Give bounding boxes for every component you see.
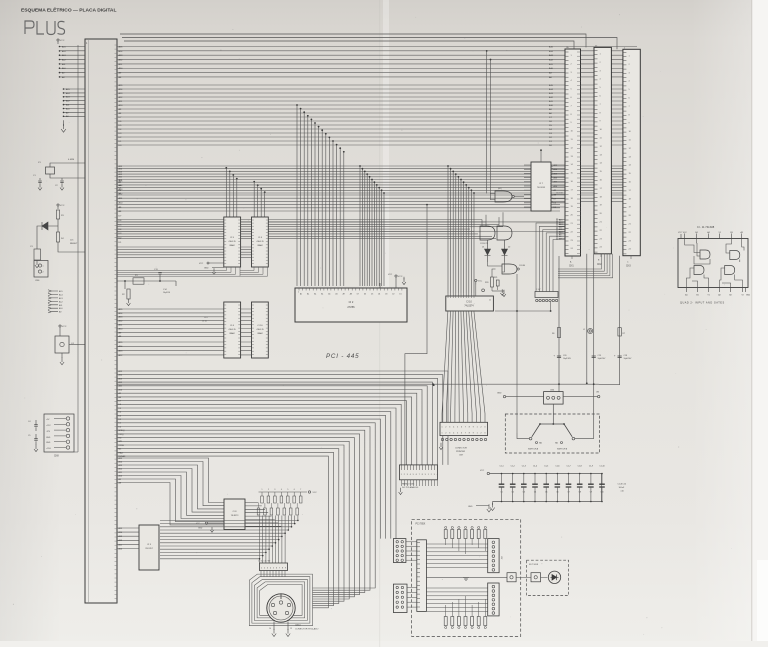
svg-text:4: 4 [453,426,454,428]
svg-text:74LS157: 74LS157 [145,548,153,550]
CN5 bottom pin stubs [402,480,438,486]
wire RAM2 lower lines (4) [117,342,224,355]
svg-text:CI - 11 74LS08: CI - 11 74LS08 [697,225,715,229]
wire filter link [516,576,531,578]
IC CI10 74LS374 [446,296,494,311]
svg-text:C1-1: C1-1 [499,466,503,468]
svg-text:RESET: RESET [70,243,78,245]
NAND gate G1 [495,191,512,202]
svg-text:A1: A1 [307,293,309,296]
svg-text:CI-10M: CI-10M [519,265,525,267]
DIN ground stubs [274,622,288,631]
svg-text:2: 2 [431,474,432,476]
PCI box right connector upper [488,539,499,573]
svg-text:A8: A8 [350,293,352,296]
svg-text:+12V: +12V [46,425,51,427]
svg-text:R6: R6 [552,333,554,335]
power rail from CN1 bottom [558,256,560,392]
svg-text:11: 11 [489,300,491,302]
bus verticals to RAM CI4 tops [253,181,255,183]
svg-text:10µF/16V: 10µF/16V [563,358,572,360]
svg-text:R21: R21 [494,277,497,279]
CI8 VCC GND stubs [205,522,207,524]
svg-text:Y2: Y2 [741,295,743,297]
svg-text:8: 8 [469,432,470,434]
svg-text:2: 2 [481,426,482,428]
wire CI8 outputs to resistors [245,503,281,527]
svg-text:C18: C18 [624,355,627,357]
joystick connector CNB [393,584,407,612]
connector CN4 [544,392,564,405]
capacitor C19 [592,356,596,358]
bus verticals to RAM CI5 tops [225,167,227,169]
wire CN1 bottom fan to service connector [536,223,565,292]
wire RAM1 lower lines (5) [117,247,224,257]
svg-text:C20: C20 [563,355,566,357]
svg-text:IORQ: IORQ [119,434,125,436]
svg-text:GND: GND [198,528,203,530]
svg-text:2: 2 [43,272,44,274]
svg-text:D5: D5 [371,294,373,296]
svg-text:MREQ: MREQ [119,430,125,432]
IC CI3 74LS157 [139,525,159,570]
RAM CI6 4164 [224,302,241,358]
bus staircase S3 to CI10 (11 verticals) [448,166,474,293]
reset RC network R1 C12 C13 [117,275,176,290]
scan speckle noise [185,352,188,355]
wires joystick connectors to strip [406,542,417,607]
svg-text:PCI 785X: PCI 785X [416,524,426,526]
CN1 power pin stubs [559,220,566,239]
svg-text:SWITCH B: SWITCH B [557,449,568,451]
CI11 top pin stubs [685,234,742,239]
capacitor C20 [557,356,561,358]
svg-text:3: 3 [407,474,408,476]
svg-text:C5: C5 [28,435,30,437]
svg-text:5: 5 [457,426,458,428]
wire bus top group 1 (8 lines to CN connectors) [117,47,637,77]
reset circuit R3 D1 R4 C3 [57,204,59,206]
svg-text:9: 9 [473,432,474,434]
svg-text:D2: D2 [392,294,394,296]
svg-text:C 1-7: C 1-7 [536,289,540,291]
decoupling capacitor row rail [487,472,489,474]
PCI box top resistors [445,526,447,528]
svg-text:10µF/16V: 10µF/16V [624,358,633,360]
svg-text:A3: A3 [741,231,743,234]
node junction vertical tap x427 [405,205,427,465]
filter pad F1 [531,573,541,582]
svg-text:15: 15 [290,628,292,630]
CI11 corner pin marks [681,234,746,292]
net label stubs A8-A14 [48,290,58,292]
svg-text:VCC: VCC [60,205,65,207]
svg-text:6: 6 [416,474,417,476]
svg-text:CN3: CN3 [626,266,631,268]
svg-text:3: 3 [484,432,485,434]
svg-text:3: 3 [434,474,435,476]
paper right edge [752,0,768,647]
svg-text:GND: GND [46,437,51,439]
svg-text:C1: C1 [500,492,502,494]
PCI box center wire and pad [426,576,507,578]
svg-text:4: 4 [281,489,282,491]
ferrite L1 on rail [588,328,593,333]
svg-text:1: 1 [401,474,402,476]
svg-text:1: 1 [428,474,429,476]
DIN pins [271,603,274,606]
connector CN8 power [44,414,74,452]
svg-text:10µF/16V: 10µF/16V [598,358,607,360]
switch B [564,424,572,437]
svg-text:RAM: RAM [258,244,263,247]
svg-text:VCC: VCC [62,326,67,328]
ROM VCC and ground [395,275,397,277]
svg-text:VCC: VCC [199,263,204,265]
svg-text:A1: A1 [300,293,302,296]
svg-text:6: 6 [276,568,277,570]
CI10 support parts VCC R C [475,279,477,281]
svg-text:C7: C7 [567,492,569,494]
diode DF1 in circle [548,571,560,583]
filter dashed box [526,560,568,595]
svg-text:CI 10: CI 10 [466,302,472,304]
wire switch A contact to left rail [517,433,529,439]
keyboard wire loops [249,574,312,626]
svg-text:C3: C3 [523,492,525,494]
PCI joystick dashed box [412,519,521,636]
LED D1 [485,240,491,262]
svg-text:Y1: Y1 [707,295,709,297]
svg-text:C10: C10 [600,492,603,494]
svg-text:CN8: CN8 [54,456,59,458]
connector CN2 edge [594,47,611,253]
svg-text:C1-10: C1-10 [599,466,604,468]
svg-text:74LS374: 74LS374 [464,306,474,308]
svg-text:6: 6 [294,489,295,491]
LED D2 [502,240,508,262]
capacitor C4 C5 at CN8 [35,420,37,445]
svg-text:CN1: CN1 [569,266,574,268]
svg-text:B2: B2 [729,295,731,297]
RAM VCC GND stubs [207,262,209,264]
svg-text:+12H: +12H [46,448,51,450]
svg-text:RAM: RAM [230,332,235,335]
wire bus group 4 (6 lines) [117,195,637,201]
svg-text:C9: C9 [590,492,592,494]
svg-text:C2: C2 [512,492,514,494]
keyboard loops inner stubs [262,574,270,584]
svg-text:C1-5: C1-5 [544,466,548,468]
svg-text:1: 1 [262,489,263,491]
IC CI7 74LS245 [531,162,551,211]
bus staircase S2 to ROM (11 verticals) [360,166,384,286]
PCI box right connector lower [488,583,499,616]
svg-text:1: 1 [477,432,478,434]
wire y311 link [495,310,551,312]
connector CN7 printer [440,422,488,435]
svg-text:4: 4 [437,474,438,476]
keyboard pull-up resistor row R8-R21 [259,491,308,493]
svg-text:R20: R20 [485,282,488,284]
svg-text:GND: GND [204,268,209,270]
svg-text:8: 8 [422,474,423,476]
svg-text:PRINTER: PRINTER [456,451,466,453]
CN7 ground [439,443,443,450]
GND arrow above PCI box [476,505,489,507]
PCI box bottom resistors [444,617,447,626]
svg-text:Y4: Y4 [718,232,720,234]
wire fan bundle to joystick board (4 lines) [117,408,396,539]
svg-text:PARA O CN5: PARA O CN5 [402,483,415,486]
transistor Q1 block [59,325,61,327]
svg-text:1: 1 [43,266,44,268]
resistor R7 on rail [618,328,621,336]
wire fan bundle to CN5 connector (10 lines) [117,371,448,465]
AND gate U11B [730,251,740,260]
svg-text:A2: A2 [718,294,720,297]
svg-text:A4: A4 [707,231,709,234]
svg-text:9: 9 [425,474,426,476]
svg-text:74LS373: 74LS373 [231,515,239,517]
wire fan bundle to keyboard loops (10 lines) [117,423,375,608]
svg-text:C1-7: C1-7 [566,466,570,468]
connector CN5 to analog board [400,465,438,480]
CI7 right pins to CN1 [551,165,565,207]
IC CI8 74LS373 [224,499,245,530]
capacitors C1-1 to C1-10 [501,474,503,485]
IC CI11 74LS08 gate box [678,239,748,288]
svg-text:VCC: VCC [478,281,483,283]
svg-text:8: 8 [469,426,470,428]
svg-text:5: 5 [413,474,414,476]
switch enclosure dashed box [505,414,599,453]
PCI box wires lower [426,588,487,611]
svg-text:GND: GND [46,442,51,444]
svg-text:C1 A C10: C1 A C10 [618,483,627,486]
svg-text:1: 1 [261,568,262,570]
svg-text:C19: C19 [598,355,601,357]
svg-text:D7: D7 [357,294,359,296]
main IC left pin group A [59,47,85,77]
svg-text:CLOCK: CLOCK [556,193,564,195]
svg-text:C8: C8 [579,492,581,494]
svg-text:D4: D4 [378,294,380,296]
svg-text:VCC: VCC [683,232,688,234]
svg-text:B1: B1 [696,295,698,297]
paper fold crease [383,0,389,300]
svg-text:7: 7 [300,489,301,491]
svg-text:GND: GND [468,506,473,508]
wire verticals to gate G1 from top bus [487,51,491,200]
svg-text:CI 2: CI 2 [349,300,354,304]
switch A [532,424,540,437]
ground below left pins [63,120,65,126]
svg-text:B4: B4 [695,232,697,234]
CI10 top pin labels [448,293,474,296]
svg-text:4164-15: 4164-15 [256,329,264,331]
svg-text:C1-2: C1-2 [511,466,515,468]
svg-text:B3: B3 [730,232,732,234]
svg-text:9: 9 [473,426,474,428]
svg-text:4: 4 [453,432,454,434]
svg-text:VCC: VCC [313,492,318,494]
bus staircase S1 to ROM (14 verticals) [297,105,344,286]
svg-text:6: 6 [461,426,462,428]
connector CN3 edge [623,49,640,255]
wire RAM2 upper lines (8) [117,309,224,336]
svg-text:GND: GND [497,393,502,395]
capacitor row ground [492,502,494,506]
flex connector bottom stubs [261,571,285,577]
DIN key notch [280,594,282,599]
svg-text:7: 7 [465,432,466,434]
svg-text:HALT: HALT [119,451,125,454]
svg-text:1: 1 [442,426,443,428]
svg-text:4164-15: 4164-15 [256,241,264,243]
power rails from CN2 bottom [587,254,594,439]
svg-text:1 2 3 4 5 6 7 8 9: 1 2 3 4 5 6 7 8 9 [258,561,270,563]
svg-text:C5: C5 [545,492,547,494]
svg-text:5: 5 [273,568,274,570]
svg-text:14: 14 [269,628,271,630]
svg-text:1: 1 [442,432,443,434]
svg-text:100nF: 100nF [619,487,625,489]
wire bus to CI8 latch (8 lines) [117,458,224,525]
svg-text:7: 7 [419,474,420,476]
CI7 top stub to bus [540,150,542,162]
DIN connector CN10 circle [267,594,295,622]
RAM2 pin ticks [224,305,268,355]
svg-text:VCC: VCC [60,40,65,42]
junction dots power rails [558,383,560,385]
svg-text:SWITCH A: SWITCH A [528,448,539,451]
svg-text:WR: WR [119,441,123,443]
wire main IC to CI3 (6 lines) [117,528,139,549]
svg-text:RFSH: RFSH [119,445,125,447]
svg-text:PCI - 445: PCI - 445 [326,353,359,360]
main IC U1 body [85,39,117,603]
power rail left vertical [77,45,79,452]
AND gate U11C [694,266,704,275]
resistor R20 [492,269,496,277]
svg-text:FILT 9658: FILT 9658 [529,564,539,566]
resistor R6 on rail [557,328,560,338]
svg-text:C4: C4 [28,421,30,423]
svg-text:2: 2 [268,489,269,491]
svg-text:CONECTOR: CONECTOR [455,448,467,450]
svg-text:VCC: VCC [398,276,403,278]
svg-text:6: 6 [461,432,462,434]
svg-text:VCC: VCC [388,274,393,276]
wire gate G4 output down to switch [516,274,518,433]
svg-text:7: 7 [279,568,280,570]
svg-text:A9: A9 [343,293,345,296]
svg-text:R7: R7 [623,333,625,335]
svg-text:QUAD 2- INPUT AND GATES: QUAD 2- INPUT AND GATES [680,302,725,305]
svg-text:C1-8: C1-8 [578,466,582,468]
connector CN6 2-pin [34,261,48,278]
svg-text:C4: C4 [534,492,536,494]
svg-text:27256: 27256 [347,305,355,309]
wire CN2 bottom corner bundle [558,254,613,278]
ROM CI2 27256 [295,288,407,322]
AND gate U11D [725,266,735,275]
svg-text:1: 1 [477,426,478,428]
svg-text:CI13 4/73: CI13 4/73 [480,243,488,245]
wire two long rows to CN1 [117,221,565,223]
wire bus address group (11 lines) [117,166,637,193]
svg-text:A1: A1 [321,293,323,296]
svg-text:74LS245: 74LS245 [537,187,546,189]
svg-text:4: 4 [270,568,271,570]
svg-text:7: 7 [465,426,466,428]
svg-text:C1-3: C1-3 [522,466,526,468]
svg-text:RAM: RAM [258,332,263,335]
svg-text:VCC: VCC [480,470,485,472]
handwritten PLUS [25,21,65,35]
RAM pin ticks [224,220,268,263]
CN7 pin circles [441,438,443,440]
GND stub left of CN4 [503,395,505,397]
NAND gate G4 [502,264,517,274]
svg-text:CN6: CN6 [35,280,40,282]
svg-text:2: 2 [481,432,482,434]
svg-text:9: 9 [285,568,286,570]
svg-text:4164-15: 4164-15 [228,329,236,331]
wire service connector to G4 net [550,302,552,311]
svg-text:D1: D1 [482,247,484,249]
svg-text:5: 5 [287,489,288,491]
RAM CI4 4164 [252,217,269,267]
CI11 bottom pin stubs [686,288,742,293]
gate input verticals [482,212,503,226]
svg-text:2: 2 [404,474,405,476]
joystick connector CNA [393,539,406,563]
svg-text:CI 16: CI 16 [257,325,263,327]
RAM CI16 4164 [252,302,269,358]
AND gate G2 [480,226,495,240]
svg-text:RAM: RAM [230,244,235,247]
svg-text:C1-4: C1-4 [533,466,537,468]
wire RAM1 bottom returns [117,267,268,276]
connector CN1 edge [565,49,581,256]
svg-text:2: 2 [445,426,446,428]
svg-text:C1-9: C1-9 [589,466,593,468]
svg-text:A1: A1 [314,293,316,296]
header strip inside PCI box [417,540,427,612]
wire bus top group 2 (16 lines to CN connectors) [117,85,637,145]
CI7 left pins [524,165,531,207]
svg-text:D1: D1 [399,294,401,296]
wire GND long line to switch area [117,383,599,385]
service connector CN12 [535,292,558,298]
svg-text:8: 8 [282,568,283,570]
svg-text:3: 3 [484,426,485,428]
wire switch B contact to right rail [575,438,594,440]
svg-text:C6: C6 [556,492,558,494]
wire keyboard matrix staircase [160,516,298,564]
svg-text:L1: L1 [583,329,585,331]
PCI box center ground symbol [463,577,469,580]
svg-text:2: 2 [264,568,265,570]
wire top jumpers to CN tops [120,34,617,49]
main IC left pin group B [63,89,85,116]
switch common wire [540,404,564,424]
VCC symbol top left [57,39,59,41]
ROM top pin ticks [300,286,402,289]
wire CI10 outputs to CN7 (11 lines) [442,311,485,422]
